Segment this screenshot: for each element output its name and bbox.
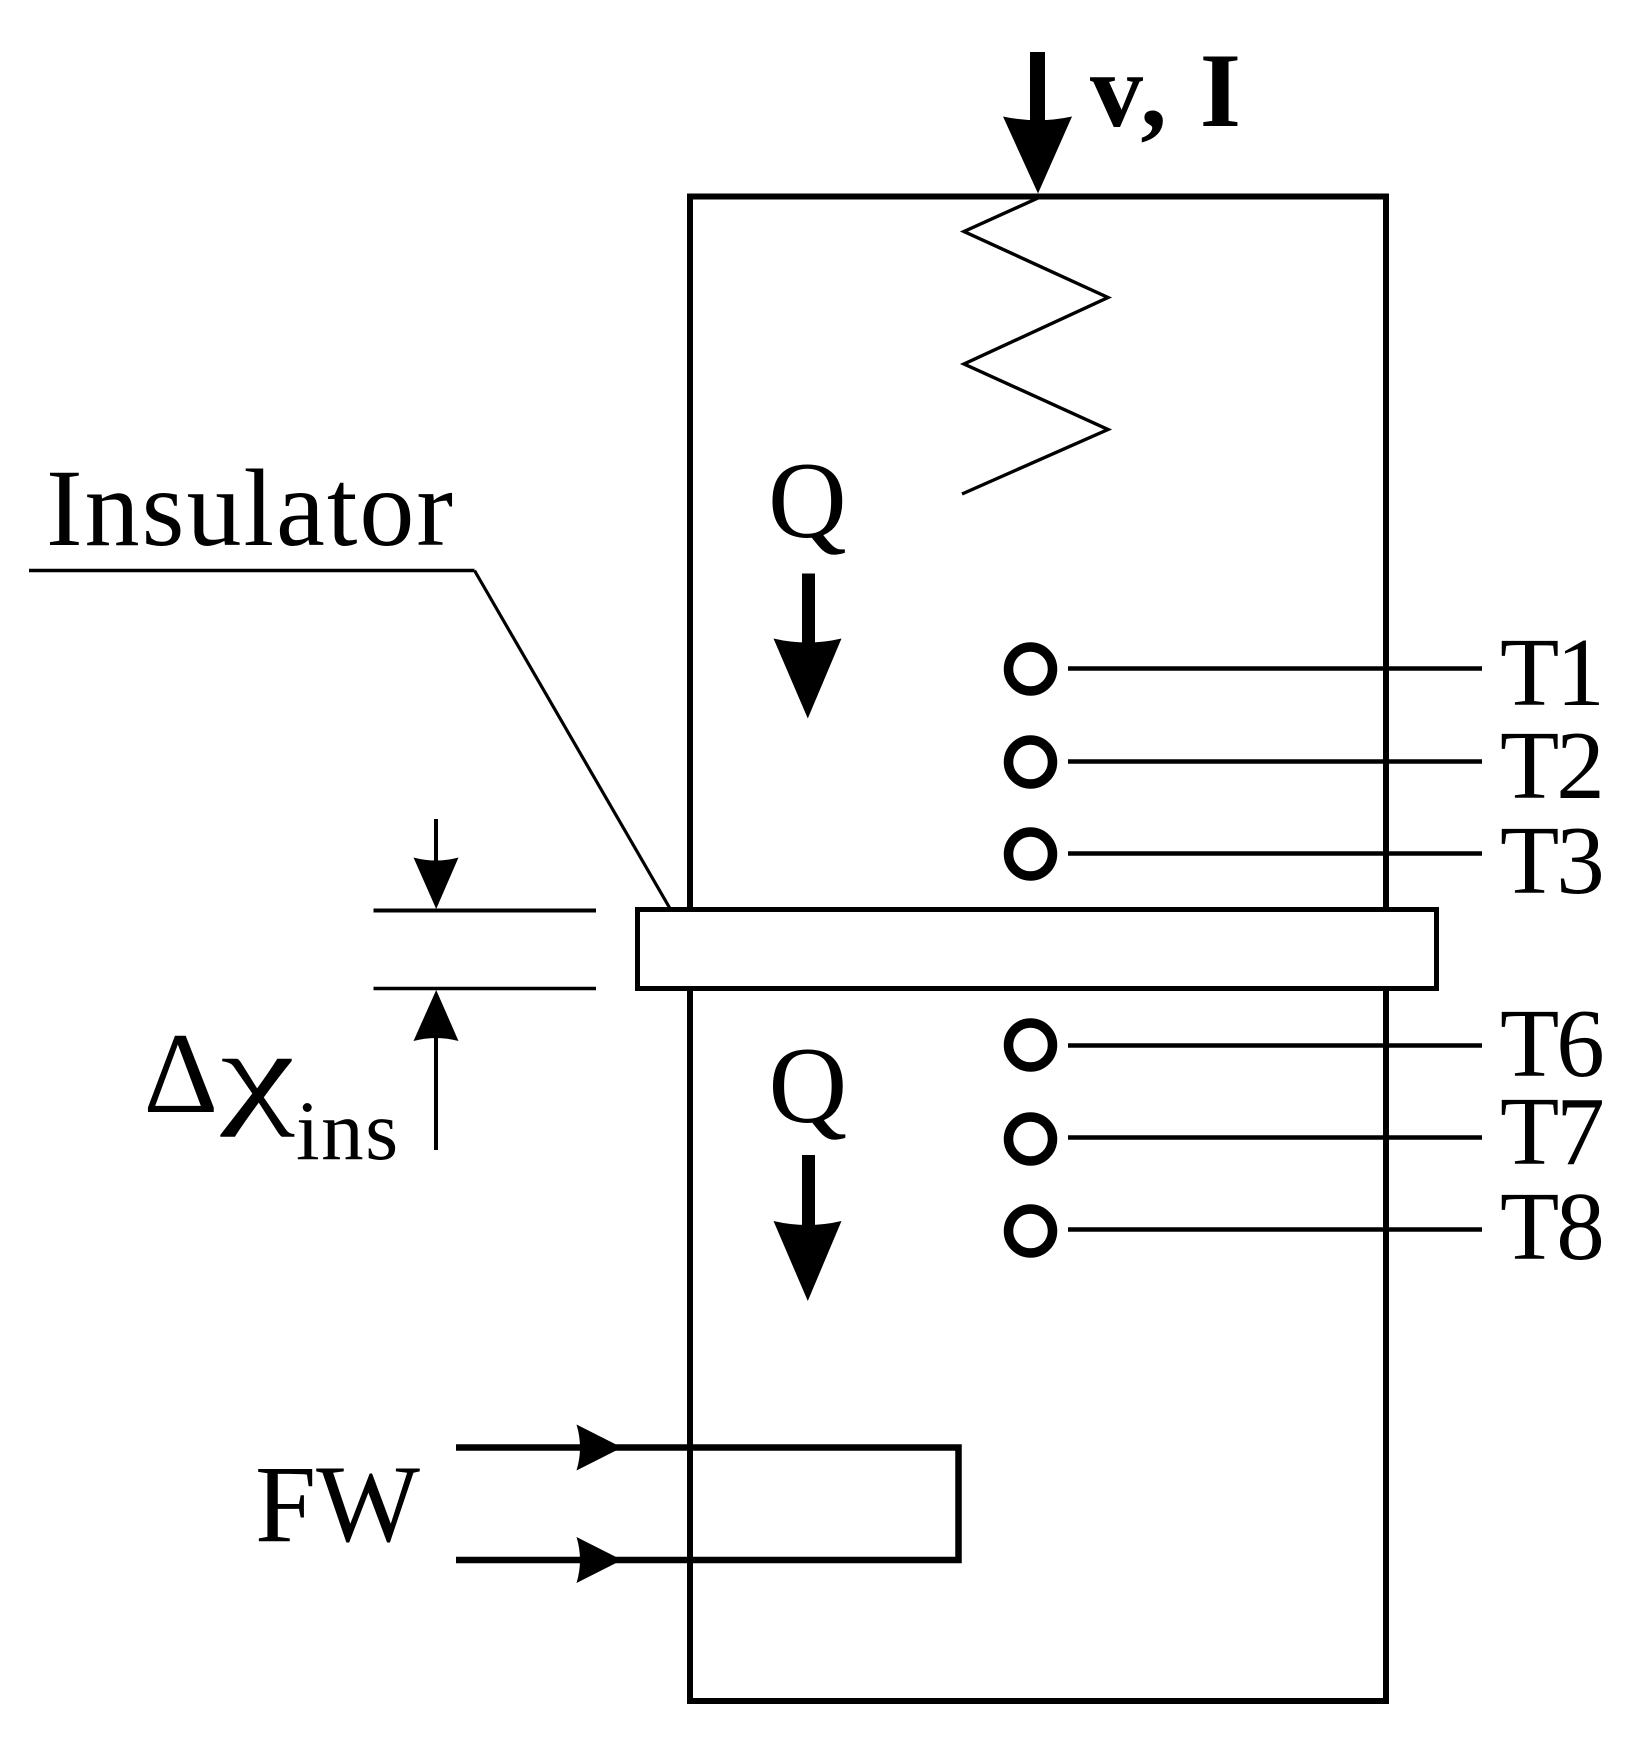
svg-text:ins: ins	[296, 1084, 400, 1178]
svg-text:T3: T3	[1500, 807, 1602, 914]
svg-text:Insulator: Insulator	[46, 447, 455, 569]
svg-text:T8: T8	[1500, 1173, 1602, 1280]
svg-text:χ: χ	[219, 1009, 295, 1137]
svg-text:Q: Q	[769, 1025, 848, 1146]
svg-text:T1: T1	[1500, 619, 1602, 726]
svg-text:T7: T7	[1500, 1078, 1602, 1185]
svg-text:Q: Q	[768, 440, 847, 561]
svg-text:T2: T2	[1500, 712, 1602, 819]
svg-text:Δ: Δ	[144, 1010, 219, 1138]
svg-text:v, I: v, I	[1090, 32, 1244, 149]
svg-text:FW: FW	[255, 1443, 420, 1565]
